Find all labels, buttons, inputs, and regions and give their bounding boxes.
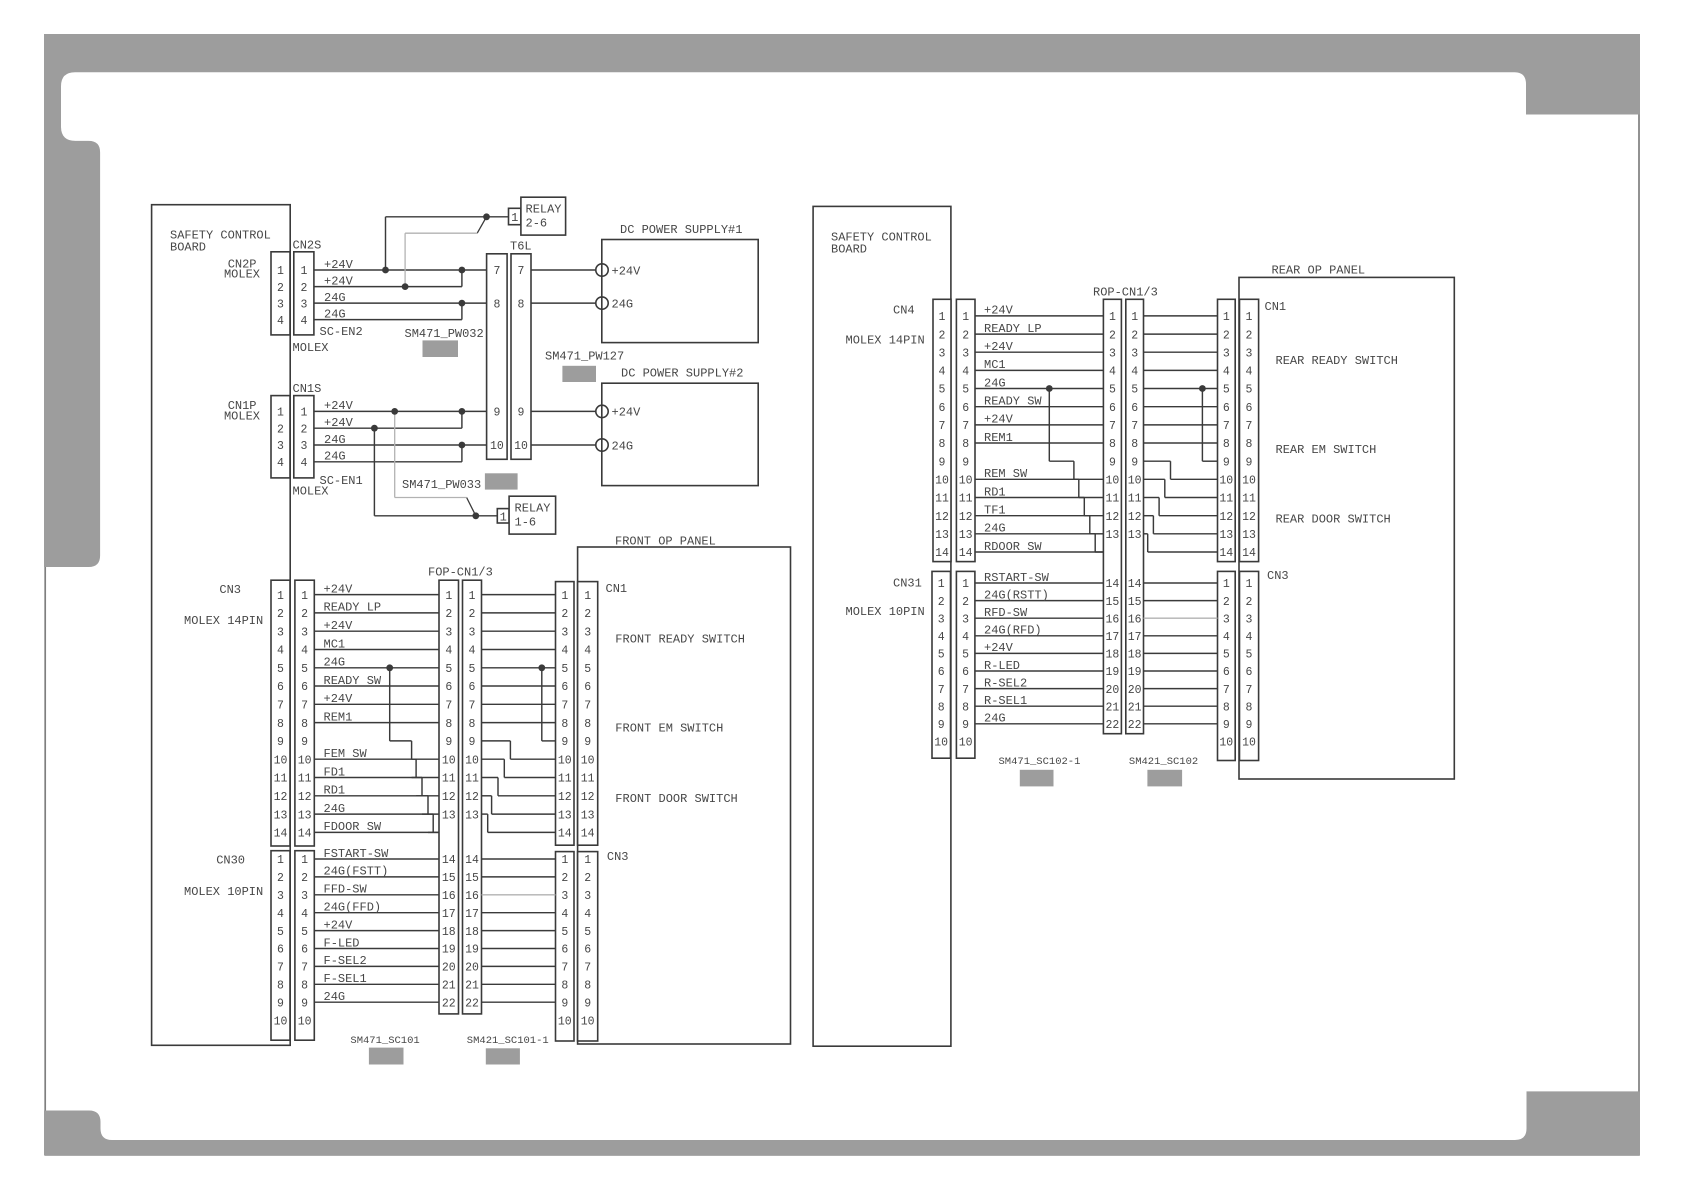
svg-text:4: 4 (277, 645, 284, 658)
svg-text:3: 3 (561, 890, 568, 903)
svg-text:4: 4 (1109, 366, 1116, 379)
svg-text:9: 9 (301, 736, 308, 749)
svg-text:1: 1 (511, 211, 518, 225)
svg-text:4: 4 (939, 366, 946, 379)
svg-text:1: 1 (469, 590, 476, 603)
svg-text:8: 8 (445, 718, 452, 731)
svg-text:MOLEX: MOLEX (293, 484, 329, 498)
svg-text:+24V: +24V (612, 406, 642, 420)
svg-text:11: 11 (1128, 493, 1142, 506)
svg-text:+24V: +24V (324, 918, 354, 932)
svg-text:RELAY: RELAY (515, 501, 551, 515)
svg-text:15: 15 (1128, 596, 1142, 609)
svg-text:8: 8 (1109, 438, 1116, 451)
svg-text:10: 10 (1105, 475, 1119, 488)
svg-text:17: 17 (442, 908, 456, 921)
svg-text:CN1S: CN1S (293, 382, 322, 396)
svg-text:24G: 24G (984, 712, 1006, 726)
svg-text:+24V: +24V (612, 264, 642, 278)
svg-text:4: 4 (469, 645, 476, 658)
svg-text:FRONT OP PANEL: FRONT OP PANEL (615, 534, 716, 548)
svg-text:5: 5 (584, 926, 591, 939)
svg-text:20: 20 (465, 962, 479, 975)
svg-text:13: 13 (959, 529, 973, 542)
svg-text:1: 1 (561, 590, 568, 603)
svg-text:+24V: +24V (324, 399, 354, 413)
svg-text:10: 10 (581, 1015, 595, 1028)
svg-text:FOP-CN1/3: FOP-CN1/3 (428, 566, 493, 580)
svg-text:9: 9 (938, 719, 945, 732)
svg-text:1: 1 (277, 590, 284, 603)
svg-text:9: 9 (1131, 456, 1138, 469)
svg-text:REAR OP PANEL: REAR OP PANEL (1272, 264, 1366, 278)
svg-text:READY LP: READY LP (324, 601, 382, 615)
svg-text:12: 12 (1219, 511, 1233, 524)
svg-text:SM471_SC102-1: SM471_SC102-1 (999, 756, 1081, 768)
svg-text:3: 3 (939, 347, 946, 360)
svg-text:9: 9 (939, 456, 946, 469)
svg-text:1: 1 (584, 854, 591, 867)
svg-text:6: 6 (301, 944, 308, 957)
svg-text:13: 13 (1219, 529, 1233, 542)
svg-text:11: 11 (1105, 493, 1119, 506)
svg-text:READY SW: READY SW (984, 395, 1042, 409)
svg-text:+24V: +24V (324, 416, 354, 430)
svg-text:F-SEL1: F-SEL1 (324, 972, 367, 986)
svg-text:9: 9 (561, 736, 568, 749)
svg-text:1: 1 (301, 854, 308, 867)
svg-text:21: 21 (1105, 701, 1119, 714)
svg-text:+24V: +24V (324, 582, 354, 596)
svg-text:9: 9 (1246, 456, 1253, 469)
svg-text:9: 9 (962, 456, 969, 469)
svg-text:11: 11 (581, 773, 595, 786)
svg-text:CN31: CN31 (893, 577, 922, 591)
svg-text:3: 3 (300, 298, 307, 311)
svg-text:8: 8 (962, 438, 969, 451)
svg-text:12: 12 (1242, 511, 1256, 524)
svg-text:5: 5 (561, 663, 568, 676)
svg-text:2: 2 (962, 329, 969, 342)
svg-text:12: 12 (558, 791, 572, 804)
svg-text:19: 19 (1128, 666, 1142, 679)
svg-text:8: 8 (1246, 701, 1253, 714)
svg-text:24G: 24G (324, 307, 346, 321)
svg-text:3: 3 (277, 440, 284, 453)
svg-text:5: 5 (277, 663, 284, 676)
svg-text:BOARD: BOARD (170, 241, 206, 255)
svg-text:SC-EN2: SC-EN2 (320, 325, 363, 339)
svg-text:9: 9 (1246, 719, 1253, 732)
svg-text:13: 13 (581, 809, 595, 822)
svg-text:6: 6 (445, 681, 452, 694)
svg-text:8: 8 (469, 718, 476, 731)
svg-text:7: 7 (1246, 420, 1253, 433)
svg-text:7: 7 (301, 700, 308, 713)
svg-text:7: 7 (493, 265, 500, 278)
svg-text:11: 11 (465, 773, 479, 786)
svg-text:24G: 24G (324, 291, 346, 305)
svg-text:10: 10 (581, 754, 595, 767)
svg-text:24G: 24G (612, 297, 634, 311)
svg-text:+24V: +24V (324, 619, 354, 633)
svg-text:RD1: RD1 (984, 485, 1006, 499)
svg-text:1: 1 (277, 854, 284, 867)
svg-text:1: 1 (561, 854, 568, 867)
svg-text:1: 1 (445, 590, 452, 603)
svg-text:10: 10 (1242, 737, 1256, 750)
svg-text:20: 20 (1105, 684, 1119, 697)
svg-text:2: 2 (962, 596, 969, 609)
svg-text:10: 10 (558, 754, 572, 767)
svg-text:4: 4 (938, 631, 945, 644)
svg-text:12: 12 (581, 791, 595, 804)
svg-text:8: 8 (493, 298, 500, 311)
svg-text:7: 7 (277, 700, 284, 713)
svg-text:SM471_PW032: SM471_PW032 (405, 327, 484, 341)
svg-text:19: 19 (465, 944, 479, 957)
svg-text:8: 8 (939, 438, 946, 451)
svg-text:8: 8 (277, 718, 284, 731)
svg-text:9: 9 (1223, 719, 1230, 732)
svg-text:14: 14 (935, 547, 949, 560)
svg-text:FRONT EM SWITCH: FRONT EM SWITCH (615, 722, 723, 736)
svg-text:22: 22 (1128, 719, 1142, 732)
svg-text:8: 8 (561, 718, 568, 731)
svg-text:1: 1 (300, 407, 307, 420)
svg-text:6: 6 (962, 402, 969, 415)
svg-text:2: 2 (938, 596, 945, 609)
svg-text:22: 22 (1105, 719, 1119, 732)
svg-text:3: 3 (277, 298, 284, 311)
svg-text:MOLEX 14PIN: MOLEX 14PIN (846, 333, 925, 347)
svg-text:8: 8 (584, 980, 591, 993)
svg-text:10: 10 (558, 1015, 572, 1028)
svg-text:12: 12 (465, 791, 479, 804)
svg-text:3: 3 (1223, 347, 1230, 360)
svg-text:10: 10 (514, 440, 528, 453)
svg-text:FRONT READY SWITCH: FRONT READY SWITCH (615, 633, 745, 647)
svg-text:MOLEX: MOLEX (224, 268, 260, 282)
svg-text:2: 2 (300, 282, 307, 295)
svg-text:9: 9 (445, 736, 452, 749)
svg-text:BOARD: BOARD (831, 243, 867, 257)
svg-text:7: 7 (939, 420, 946, 433)
svg-text:4: 4 (300, 315, 307, 328)
svg-text:T6L: T6L (510, 240, 532, 254)
svg-text:6: 6 (1246, 402, 1253, 415)
svg-text:13: 13 (1128, 529, 1142, 542)
svg-text:16: 16 (1128, 613, 1142, 626)
svg-text:6: 6 (584, 944, 591, 957)
svg-text:9: 9 (277, 997, 284, 1010)
svg-text:15: 15 (465, 872, 479, 885)
svg-text:1: 1 (962, 311, 969, 324)
svg-text:READY SW: READY SW (324, 674, 382, 688)
svg-text:12: 12 (959, 511, 973, 524)
svg-text:R-SEL2: R-SEL2 (984, 676, 1027, 690)
svg-text:10: 10 (935, 475, 949, 488)
svg-text:RSTART-SW: RSTART-SW (984, 571, 1050, 585)
svg-text:CN2S: CN2S (293, 239, 322, 253)
svg-text:REM SW: REM SW (984, 467, 1028, 481)
svg-text:17: 17 (465, 908, 479, 921)
svg-text:21: 21 (442, 980, 456, 993)
svg-text:20: 20 (442, 962, 456, 975)
svg-text:7: 7 (469, 700, 476, 713)
svg-text:6: 6 (1131, 402, 1138, 415)
svg-text:3: 3 (469, 626, 476, 639)
svg-text:19: 19 (1105, 666, 1119, 679)
svg-text:1: 1 (300, 265, 307, 278)
svg-text:24G(FFD): 24G(FFD) (324, 901, 382, 915)
svg-text:4: 4 (1246, 631, 1253, 644)
svg-text:+24V: +24V (324, 692, 354, 706)
svg-text:24G(RSTT): 24G(RSTT) (984, 588, 1049, 602)
svg-text:15: 15 (442, 872, 456, 885)
svg-text:14: 14 (442, 854, 456, 867)
svg-text:4: 4 (584, 645, 591, 658)
svg-text:10: 10 (298, 754, 312, 767)
svg-text:SM421_SC101-1: SM421_SC101-1 (467, 1035, 549, 1047)
svg-text:2-6: 2-6 (526, 216, 548, 230)
svg-text:7: 7 (1246, 684, 1253, 697)
svg-text:13: 13 (1242, 529, 1256, 542)
svg-text:5: 5 (445, 663, 452, 676)
svg-text:21: 21 (465, 980, 479, 993)
svg-text:1-6: 1-6 (515, 515, 537, 529)
svg-text:3: 3 (277, 890, 284, 903)
svg-text:5: 5 (469, 663, 476, 676)
svg-text:9: 9 (493, 407, 500, 420)
svg-text:9: 9 (301, 997, 308, 1010)
svg-text:2: 2 (939, 329, 946, 342)
svg-text:17: 17 (1128, 631, 1142, 644)
svg-text:14: 14 (558, 828, 572, 841)
svg-text:2: 2 (469, 608, 476, 621)
svg-text:10: 10 (1219, 737, 1233, 750)
svg-text:3: 3 (445, 626, 452, 639)
svg-text:3: 3 (1223, 613, 1230, 626)
svg-text:1: 1 (500, 510, 507, 524)
svg-text:MC1: MC1 (984, 358, 1006, 372)
svg-text:1: 1 (962, 578, 969, 591)
svg-text:RD1: RD1 (324, 784, 346, 798)
svg-text:4: 4 (962, 366, 969, 379)
svg-text:MOLEX: MOLEX (293, 341, 329, 355)
svg-text:4: 4 (301, 645, 308, 658)
svg-text:11: 11 (1242, 493, 1256, 506)
svg-text:9: 9 (518, 407, 525, 420)
svg-text:+24V: +24V (984, 641, 1014, 655)
svg-text:7: 7 (301, 962, 308, 975)
svg-text:8: 8 (1223, 438, 1230, 451)
svg-text:2: 2 (1246, 329, 1253, 342)
svg-text:6: 6 (939, 402, 946, 415)
svg-text:7: 7 (584, 700, 591, 713)
svg-text:2: 2 (561, 872, 568, 885)
svg-text:3: 3 (938, 613, 945, 626)
svg-text:13: 13 (935, 529, 949, 542)
svg-text:4: 4 (584, 908, 591, 921)
svg-text:SM471_PW127: SM471_PW127 (545, 350, 624, 364)
svg-text:9: 9 (584, 997, 591, 1010)
svg-text:DC POWER SUPPLY#2: DC POWER SUPPLY#2 (621, 367, 743, 381)
svg-text:7: 7 (584, 962, 591, 975)
svg-text:17: 17 (1105, 631, 1119, 644)
svg-text:18: 18 (1105, 649, 1119, 662)
svg-text:2: 2 (277, 423, 284, 436)
svg-text:2: 2 (1223, 329, 1230, 342)
svg-text:6: 6 (584, 681, 591, 694)
svg-text:5: 5 (561, 926, 568, 939)
svg-text:5: 5 (938, 649, 945, 662)
svg-text:24G(FSTT): 24G(FSTT) (324, 865, 389, 879)
svg-text:7: 7 (962, 420, 969, 433)
svg-text:20: 20 (1128, 684, 1142, 697)
svg-text:6: 6 (938, 666, 945, 679)
svg-text:2: 2 (277, 872, 284, 885)
svg-text:10: 10 (298, 1015, 312, 1028)
svg-text:11: 11 (442, 773, 456, 786)
svg-text:19: 19 (442, 944, 456, 957)
svg-text:6: 6 (962, 666, 969, 679)
svg-text:24G: 24G (984, 522, 1006, 536)
svg-text:6: 6 (561, 944, 568, 957)
svg-text:3: 3 (584, 626, 591, 639)
svg-text:24G: 24G (324, 450, 346, 464)
svg-text:4: 4 (277, 457, 284, 470)
svg-text:4: 4 (962, 631, 969, 644)
svg-text:9: 9 (1223, 456, 1230, 469)
svg-text:4: 4 (300, 457, 307, 470)
svg-text:12: 12 (935, 511, 949, 524)
svg-text:24G: 24G (324, 802, 346, 816)
svg-text:2: 2 (584, 608, 591, 621)
svg-text:10: 10 (959, 737, 973, 750)
svg-text:3: 3 (962, 613, 969, 626)
svg-text:9: 9 (962, 719, 969, 732)
svg-text:10: 10 (490, 440, 504, 453)
svg-text:2: 2 (445, 608, 452, 621)
svg-text:12: 12 (274, 791, 288, 804)
svg-text:8: 8 (938, 701, 945, 714)
svg-text:+24V: +24V (984, 340, 1014, 354)
svg-text:8: 8 (301, 718, 308, 731)
svg-text:8: 8 (301, 980, 308, 993)
svg-text:2: 2 (277, 282, 284, 295)
svg-text:4: 4 (301, 908, 308, 921)
svg-text:MOLEX 10PIN: MOLEX 10PIN (846, 605, 925, 619)
svg-text:24G(RFD): 24G(RFD) (984, 624, 1042, 638)
svg-text:MOLEX 10PIN: MOLEX 10PIN (184, 885, 263, 899)
svg-text:REAR EM SWITCH: REAR EM SWITCH (1276, 443, 1377, 457)
svg-text:FRONT DOOR SWITCH: FRONT DOOR SWITCH (615, 792, 737, 806)
svg-text:11: 11 (558, 773, 572, 786)
svg-text:24G: 24G (324, 990, 346, 1004)
svg-text:8: 8 (1131, 438, 1138, 451)
svg-text:10: 10 (1219, 475, 1233, 488)
svg-text:1: 1 (1131, 311, 1138, 324)
svg-text:16: 16 (465, 890, 479, 903)
svg-text:9: 9 (469, 736, 476, 749)
svg-text:3: 3 (1131, 347, 1138, 360)
svg-text:2: 2 (1246, 596, 1253, 609)
svg-text:FFD-SW: FFD-SW (324, 883, 368, 897)
svg-text:14: 14 (298, 828, 312, 841)
svg-text:1: 1 (938, 578, 945, 591)
svg-text:8: 8 (1223, 701, 1230, 714)
svg-text:7: 7 (561, 962, 568, 975)
svg-text:10: 10 (1242, 475, 1256, 488)
svg-text:1: 1 (939, 311, 946, 324)
svg-text:TF1: TF1 (984, 504, 1006, 518)
svg-text:14: 14 (1128, 578, 1142, 591)
svg-text:4: 4 (445, 645, 452, 658)
svg-text:15: 15 (1105, 596, 1119, 609)
svg-text:FD1: FD1 (324, 765, 346, 779)
svg-text:CN3: CN3 (1267, 569, 1289, 583)
svg-text:2: 2 (1223, 596, 1230, 609)
svg-text:10: 10 (442, 754, 456, 767)
svg-text:RFD-SW: RFD-SW (984, 606, 1028, 620)
svg-text:MC1: MC1 (324, 637, 346, 651)
svg-text:18: 18 (465, 926, 479, 939)
svg-text:11: 11 (274, 773, 288, 786)
svg-text:11: 11 (1219, 493, 1233, 506)
svg-text:14: 14 (959, 547, 973, 560)
svg-text:+24V: +24V (324, 274, 354, 288)
svg-text:6: 6 (1109, 402, 1116, 415)
svg-text:F-SEL2: F-SEL2 (324, 954, 367, 968)
svg-text:SM471_SC101: SM471_SC101 (350, 1035, 419, 1047)
svg-text:R-SEL1: R-SEL1 (984, 694, 1027, 708)
svg-text:14: 14 (465, 854, 479, 867)
svg-text:2: 2 (301, 608, 308, 621)
svg-text:3: 3 (277, 626, 284, 639)
svg-text:2: 2 (1109, 329, 1116, 342)
svg-text:1: 1 (301, 590, 308, 603)
svg-text:5: 5 (1246, 649, 1253, 662)
svg-text:10: 10 (934, 737, 948, 750)
svg-text:5: 5 (962, 384, 969, 397)
svg-text:3: 3 (561, 626, 568, 639)
svg-text:1: 1 (1246, 578, 1253, 591)
svg-text:6: 6 (277, 944, 284, 957)
svg-text:7: 7 (1109, 420, 1116, 433)
svg-text:13: 13 (298, 809, 312, 822)
svg-text:6: 6 (1223, 402, 1230, 415)
svg-text:RDOOR SW: RDOOR SW (984, 540, 1042, 554)
svg-text:8: 8 (584, 718, 591, 731)
svg-text:7: 7 (277, 962, 284, 975)
svg-text:7: 7 (561, 700, 568, 713)
svg-text:7: 7 (518, 265, 525, 278)
svg-text:1: 1 (277, 265, 284, 278)
svg-text:9: 9 (277, 736, 284, 749)
svg-text:2: 2 (561, 608, 568, 621)
svg-text:4: 4 (561, 645, 568, 658)
svg-text:12: 12 (1105, 511, 1119, 524)
svg-text:6: 6 (301, 681, 308, 694)
svg-text:11: 11 (959, 493, 973, 506)
svg-text:10: 10 (1128, 475, 1142, 488)
svg-text:7: 7 (938, 684, 945, 697)
svg-text:4: 4 (1223, 366, 1230, 379)
svg-text:SM421_SC102: SM421_SC102 (1129, 756, 1198, 768)
svg-text:4: 4 (1246, 366, 1253, 379)
svg-text:8: 8 (518, 298, 525, 311)
